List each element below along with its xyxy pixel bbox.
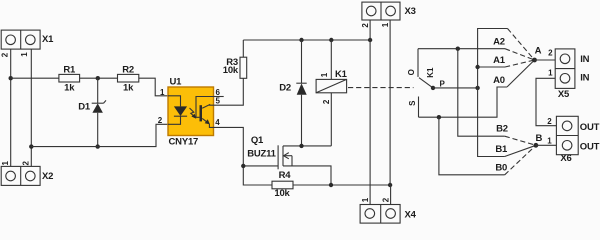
node top row / X3.2 rail: [368, 38, 372, 42]
dashed link A1 to A: [505, 60, 535, 67]
svg-text:1k: 1k: [123, 83, 134, 94]
node junction rail / U1 pin2 row: [29, 144, 33, 148]
svg-text:2: 2: [322, 99, 331, 104]
svg-text:1: 1: [548, 69, 553, 78]
wire B1 to B: [505, 145, 536, 156]
wire U1 pin2 to left rail: [31, 124, 168, 146]
wire X5.1 to X6.2 link: [536, 78, 556, 125]
wire U1 pin4 down to R4 row: [214, 127, 273, 185]
switch contact S: [408, 97, 419, 118]
resistor R3: [223, 57, 247, 78]
svg-text:B2: B2: [496, 124, 508, 135]
svg-text:CNY17: CNY17: [169, 137, 199, 148]
dashed link A2 to A: [505, 49, 535, 60]
wire R2 to U1 pin1: [139, 78, 168, 96]
transistor Q1 MOSFET: [247, 135, 292, 169]
svg-text:2: 2: [158, 116, 163, 125]
svg-text:B1: B1: [495, 144, 508, 155]
wire Q1 source row down to R4 row: [283, 166, 331, 185]
node top row / D2: [299, 38, 303, 42]
svg-text:1: 1: [160, 88, 165, 97]
svg-text:BUZ11: BUZ11: [247, 149, 276, 160]
node junction left rail / R1 row: [9, 76, 13, 80]
wire Q1 drain row: [283, 145, 331, 147]
wire B2 rail: [458, 49, 505, 137]
svg-text:1: 1: [20, 52, 29, 57]
svg-text:B0: B0: [495, 163, 507, 174]
svg-text:10k: 10k: [274, 188, 290, 199]
svg-text:X2: X2: [42, 171, 53, 182]
connector X1: [1, 30, 54, 49]
svg-text:R2: R2: [122, 64, 134, 75]
dashed link B0 to B: [505, 145, 536, 175]
svg-text:X4: X4: [405, 210, 417, 221]
svg-text:Q1: Q1: [251, 135, 264, 146]
wire P row: [433, 87, 478, 89]
svg-text:K1: K1: [426, 67, 435, 78]
node B: [534, 143, 539, 148]
node drain / D2: [299, 144, 303, 148]
wire R3 top to supply row: [242, 40, 244, 57]
node S row / B0 rail: [437, 115, 441, 119]
svg-text:R1: R1: [63, 64, 76, 75]
svg-text:B: B: [535, 133, 542, 144]
node gate junction: [241, 164, 245, 168]
svg-text:A0: A0: [493, 75, 505, 86]
wire P rail with top bend: [478, 29, 508, 157]
wire X4.2 lead: [390, 185, 392, 205]
svg-text:2: 2: [0, 52, 9, 57]
connector X4: [360, 205, 417, 224]
node junction D1 / pin2 row: [96, 144, 100, 148]
dashed link B2 to B: [505, 136, 536, 145]
wire U1 pin5 to R3: [214, 78, 244, 105]
wire X3.1 to R4 row rail: [389, 20, 391, 185]
node junction R1/R2/D1: [96, 76, 100, 80]
U1 light arrow: [190, 108, 197, 119]
wire A0 to A: [507, 60, 535, 87]
switch contact O: [407, 49, 418, 77]
svg-text:A1: A1: [493, 55, 506, 66]
wire rail to R1: [11, 77, 59, 79]
svg-text:OUT: OUT: [580, 142, 600, 153]
node R4 row / source: [329, 183, 333, 187]
wire K1 bottom lead to drain row: [330, 93, 332, 146]
svg-text:2: 2: [547, 117, 552, 126]
wire A to X5.2: [535, 59, 556, 61]
svg-text:1: 1: [547, 136, 552, 145]
svg-text:A: A: [535, 46, 542, 57]
dashed link top to A: [508, 29, 535, 61]
diode D2: [279, 40, 306, 146]
node A: [532, 58, 537, 63]
U1 phototransistor: [196, 97, 214, 128]
node P row / rail: [475, 86, 479, 90]
svg-text:IN: IN: [580, 54, 589, 65]
switch lever K1: [419, 67, 446, 90]
wire X3.2 to X4.1 rail: [369, 20, 371, 205]
node R4 row / X3.1 X4.2 rail: [388, 183, 392, 187]
dashed mechanical link K1: [348, 87, 414, 89]
wire top supply row: [243, 39, 370, 41]
svg-text:S: S: [408, 100, 417, 106]
connector X2: [1, 166, 53, 185]
diode D1 zener: [78, 78, 106, 146]
wire K1 top lead: [330, 40, 332, 79]
svg-text:U1: U1: [170, 77, 183, 88]
wire B to X6.1: [536, 144, 557, 146]
wire S row: [419, 87, 508, 117]
svg-text:10k: 10k: [223, 65, 239, 76]
svg-text:2: 2: [548, 49, 553, 58]
svg-text:X6: X6: [560, 153, 571, 164]
node top row / K1: [329, 38, 333, 42]
resistor R2: [118, 64, 139, 93]
svg-text:P: P: [440, 79, 446, 88]
wire Q1 gate lead: [243, 165, 278, 167]
svg-text:IN: IN: [580, 73, 589, 84]
wire B0 rail: [439, 117, 505, 175]
svg-text:X5: X5: [558, 89, 570, 100]
connector X5: [555, 49, 575, 100]
svg-text:1: 1: [320, 72, 329, 77]
svg-text:A2: A2: [493, 36, 505, 47]
connector X3: [362, 2, 416, 20]
node A2 row / B2 rail: [456, 47, 460, 51]
wire R4 to X4.2 rail: [293, 184, 390, 186]
U1 internal LED: [168, 96, 187, 125]
svg-text:X3: X3: [405, 6, 416, 17]
svg-text:1k: 1k: [64, 83, 75, 94]
svg-text:D1: D1: [78, 101, 91, 112]
wire A1 row: [478, 66, 505, 68]
svg-text:OUT: OUT: [580, 122, 600, 133]
connector X6: [556, 116, 578, 164]
wire X1.2 to X2.1 left rail: [10, 49, 12, 166]
svg-text:2: 2: [22, 161, 31, 166]
optocoupler U1: [168, 77, 214, 148]
node A1 branch: [475, 65, 479, 69]
svg-text:X1: X1: [42, 34, 54, 45]
svg-text:2: 2: [361, 23, 370, 28]
wire R1 to R2: [80, 77, 118, 79]
resistor R1: [59, 64, 80, 93]
svg-text:1: 1: [381, 22, 390, 27]
svg-text:K1: K1: [335, 69, 348, 80]
wire X1.1 to X2.2 rail: [30, 49, 32, 166]
wire A2 row from O: [418, 48, 505, 50]
svg-text:D2: D2: [279, 83, 291, 94]
svg-text:1: 1: [1, 161, 10, 166]
resistor R4: [272, 170, 293, 199]
svg-text:5: 5: [215, 97, 220, 106]
svg-text:6: 6: [215, 88, 220, 97]
svg-text:4: 4: [215, 118, 220, 127]
relay coil K1: [316, 69, 348, 93]
svg-text:R4: R4: [279, 170, 292, 181]
svg-text:1: 1: [361, 197, 370, 202]
svg-text:2: 2: [382, 197, 391, 202]
svg-text:O: O: [407, 69, 416, 75]
